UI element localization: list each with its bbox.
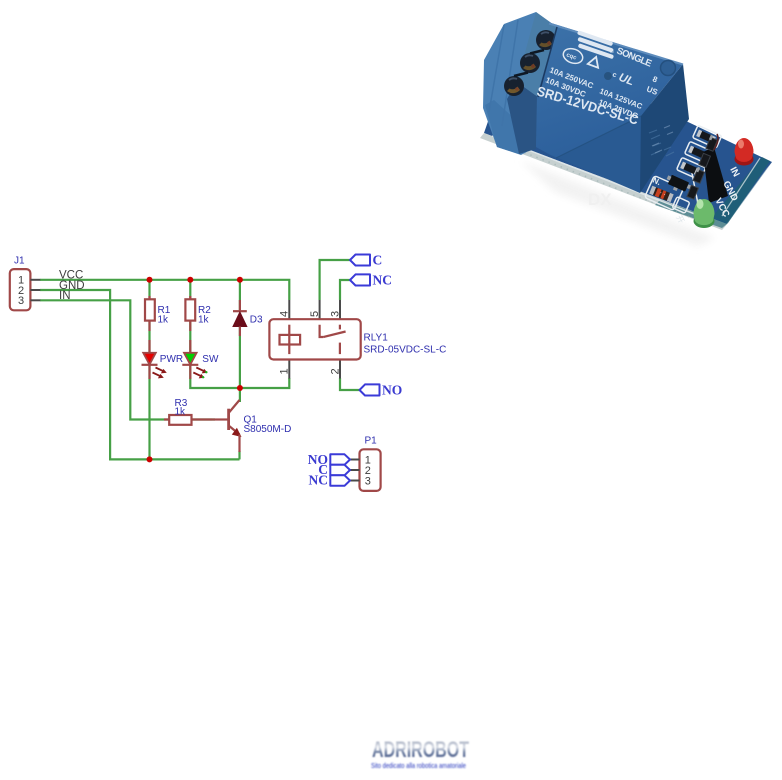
diode D3 bbox=[233, 300, 263, 336]
svg-text:3: 3 bbox=[329, 311, 341, 317]
relay top face text bbox=[535, 30, 659, 128]
wire relay pin2 to NO flag bbox=[340, 378, 360, 390]
wire node to relay pin1 bbox=[240, 378, 289, 388]
wire IN from J1 pin3 right then down then to R3 bbox=[40, 300, 169, 419]
svg-text:RLY1: RLY1 bbox=[364, 333, 389, 344]
terminal ridge lines bbox=[489, 25, 504, 112]
net flag NC bbox=[350, 273, 392, 288]
wire PWR led cathode down to ground rail bbox=[148, 365, 150, 459]
wire D3 branch vertical top bbox=[239, 280, 241, 311]
SMD resistor 1 bbox=[696, 130, 716, 144]
junction node VCC-R1 bbox=[147, 277, 153, 283]
CQC oval bbox=[561, 46, 585, 66]
PCB near edge side bbox=[480, 133, 727, 230]
wire SW led cathode down then right to node bbox=[190, 365, 240, 388]
svg-text:NO: NO bbox=[382, 383, 402, 398]
svg-text:2: 2 bbox=[329, 368, 341, 374]
svg-text:ADRIROBOT: ADRIROBOT bbox=[372, 737, 469, 762]
wire GND from J1 pin2 right then down to bottom rail bbox=[40, 290, 240, 459]
junction node VCC-D3 bbox=[237, 277, 243, 283]
terminal slot marks bbox=[530, 50, 544, 54]
wire D3 bottom to node bbox=[239, 327, 241, 389]
svg-text:3: 3 bbox=[365, 475, 371, 487]
wire relay pin5 to C flag bbox=[320, 260, 350, 300]
relay molded corner circle bbox=[661, 61, 676, 76]
LED PWR bbox=[142, 340, 184, 379]
wire relay pin3 to NC flag bbox=[340, 280, 350, 300]
svg-text:NC: NC bbox=[309, 473, 329, 488]
svg-text:P1: P1 bbox=[365, 436, 378, 447]
wire node down to Q1 collector bbox=[239, 388, 241, 402]
net flag C to P1 pin2 bbox=[330, 465, 350, 476]
terminal block front shading lower bbox=[485, 100, 519, 154]
svg-text:DX: DX bbox=[588, 190, 612, 209]
MELF diode with stripes bbox=[649, 186, 674, 202]
wire R2 branch vertical bbox=[189, 280, 191, 300]
resistor R2 bbox=[185, 296, 211, 331]
triangle mark bbox=[588, 55, 602, 68]
svg-text:1: 1 bbox=[279, 368, 291, 374]
svg-text:5: 5 bbox=[309, 311, 321, 317]
screw 2 bbox=[520, 53, 540, 73]
relay top face bbox=[536, 22, 683, 158]
svg-text:PWR: PWR bbox=[160, 354, 183, 365]
relay RLY1 bbox=[269, 300, 446, 379]
junction node D3-SW-relay-collector bbox=[237, 385, 243, 391]
transistor Q1 bbox=[212, 400, 291, 452]
relay right face mold marks bbox=[649, 130, 674, 156]
SMD resistor 3 bbox=[680, 162, 700, 176]
svg-text:S8050M-D: S8050M-D bbox=[244, 424, 292, 435]
relay right face bbox=[640, 64, 689, 193]
svg-text:Sito dedicato alla robotica am: Sito dedicato alla robotica amatoriale bbox=[371, 761, 466, 770]
silkscreen rects around SMDs bbox=[645, 125, 722, 213]
connector J1 bbox=[10, 256, 41, 311]
svg-text:J1: J1 bbox=[14, 256, 25, 267]
PCB right edge side bbox=[722, 162, 772, 230]
wire R1 branch vertical bbox=[148, 280, 150, 300]
svg-text:3: 3 bbox=[18, 295, 24, 307]
relay/terminal boundary bbox=[538, 27, 557, 97]
screw 3 bbox=[504, 76, 524, 96]
resistor R1 bbox=[145, 296, 171, 331]
terminal block side shadow near relay bbox=[507, 82, 538, 154]
PCB teal corner bbox=[712, 157, 770, 223]
wire R3 to Q1 base bbox=[192, 418, 216, 420]
SONGLE stripes logo bbox=[573, 30, 618, 59]
svg-text:1k: 1k bbox=[158, 314, 170, 325]
svg-text:IN: IN bbox=[59, 290, 71, 302]
header pin posts bbox=[687, 137, 717, 199]
wire R1 to PWR led bbox=[148, 321, 150, 353]
connector P1 bbox=[350, 436, 381, 491]
svg-text:C: C bbox=[373, 253, 383, 268]
wire whisker bbox=[714, 134, 718, 150]
net flag NC to P1 pin3 bbox=[330, 475, 350, 486]
terminal block front face bbox=[483, 12, 556, 155]
terminal block top face bbox=[517, 12, 557, 97]
svg-text:1k: 1k bbox=[175, 406, 187, 417]
SMD resistor 2 bbox=[688, 146, 708, 160]
green LED bbox=[694, 199, 715, 228]
LED SW bbox=[182, 340, 219, 379]
svg-text:SW: SW bbox=[202, 354, 219, 365]
svg-text:4: 4 bbox=[279, 311, 291, 317]
net flag C bbox=[350, 253, 382, 268]
SOT-23 transistor bbox=[664, 174, 693, 196]
relay molded dimple bbox=[604, 72, 612, 80]
wire R2 to SW led bbox=[189, 321, 191, 353]
resistor R3 bbox=[164, 398, 212, 425]
PCB silkscreen border line bbox=[492, 136, 700, 216]
PCB board top bbox=[484, 40, 772, 224]
junction node PWR-ground rail bbox=[147, 456, 153, 462]
svg-text:1k: 1k bbox=[198, 314, 210, 325]
svg-text:NC: NC bbox=[373, 273, 393, 288]
svg-text:SRD-05VDC-SL-C: SRD-05VDC-SL-C bbox=[364, 345, 447, 356]
net flag NO bbox=[360, 383, 403, 398]
pin header black base bbox=[703, 147, 728, 203]
junction node VCC-R2 bbox=[187, 277, 193, 283]
relay top edge bevel highlight bbox=[549, 24, 683, 65]
screw 1 bbox=[536, 30, 556, 50]
red LED bbox=[735, 138, 754, 166]
net flag NO to P1 pin1 bbox=[330, 454, 350, 465]
relay front face bbox=[544, 116, 641, 193]
wire VCC horizontal from J1 pin1 to relay pin4 corner bbox=[40, 280, 289, 300]
svg-text:D3: D3 bbox=[250, 315, 263, 326]
relay top/front edge line bbox=[556, 116, 641, 158]
wire Q1 emitter to ground rail bbox=[238, 451, 240, 459]
